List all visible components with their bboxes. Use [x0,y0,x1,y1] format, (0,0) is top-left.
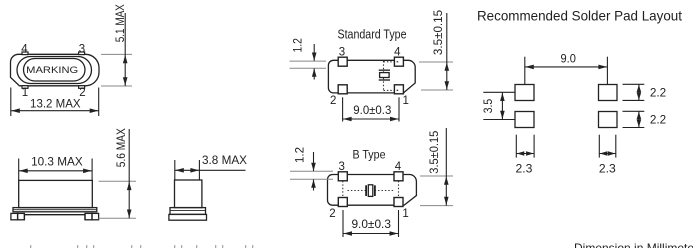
svg-text:2.3: 2.3 [599,162,616,176]
svg-text:Standard Type: Standard Type [338,28,407,42]
svg-text:5.1 MAX: 5.1 MAX [113,4,127,42]
svg-text:1: 1 [402,208,408,220]
svg-text:4: 4 [395,161,402,173]
svg-text:4: 4 [394,47,401,59]
svg-text:3.5: 3.5 [481,99,495,114]
svg-text:1: 1 [402,95,408,107]
svg-text:Dimension in Millimeters: Dimension in Millimeters [574,241,693,248]
svg-text:3: 3 [338,161,344,173]
svg-text:Recommended Solder Pad Layout: Recommended Solder Pad Layout [477,8,682,24]
svg-text:13.2 MAX: 13.2 MAX [30,97,81,111]
svg-text:3: 3 [339,47,345,59]
svg-text:3.5±0.15: 3.5±0.15 [431,10,445,56]
svg-text:2.2: 2.2 [650,113,667,127]
svg-text:1.2: 1.2 [292,147,306,163]
svg-text:9.0: 9.0 [561,51,577,65]
svg-text:10.3 MAX: 10.3 MAX [31,155,83,169]
svg-text:2.2: 2.2 [650,85,667,99]
svg-text:2: 2 [330,95,336,107]
svg-text:2.3: 2.3 [516,162,533,176]
svg-text:1: 1 [22,87,28,99]
svg-text:MARKING: MARKING [26,65,78,76]
svg-text:5.6 MAX: 5.6 MAX [114,128,128,167]
svg-text:9.0±0.3: 9.0±0.3 [353,103,391,117]
svg-text:2: 2 [329,208,335,220]
svg-text:3.8 MAX: 3.8 MAX [202,153,247,167]
svg-text:1.2: 1.2 [290,38,304,53]
svg-text:3: 3 [79,44,85,56]
svg-text:3.5±0.15: 3.5±0.15 [427,130,441,173]
svg-text:9.0±0.3: 9.0±0.3 [351,217,391,231]
svg-text:4: 4 [21,44,28,56]
svg-text:B Type: B Type [353,148,386,162]
